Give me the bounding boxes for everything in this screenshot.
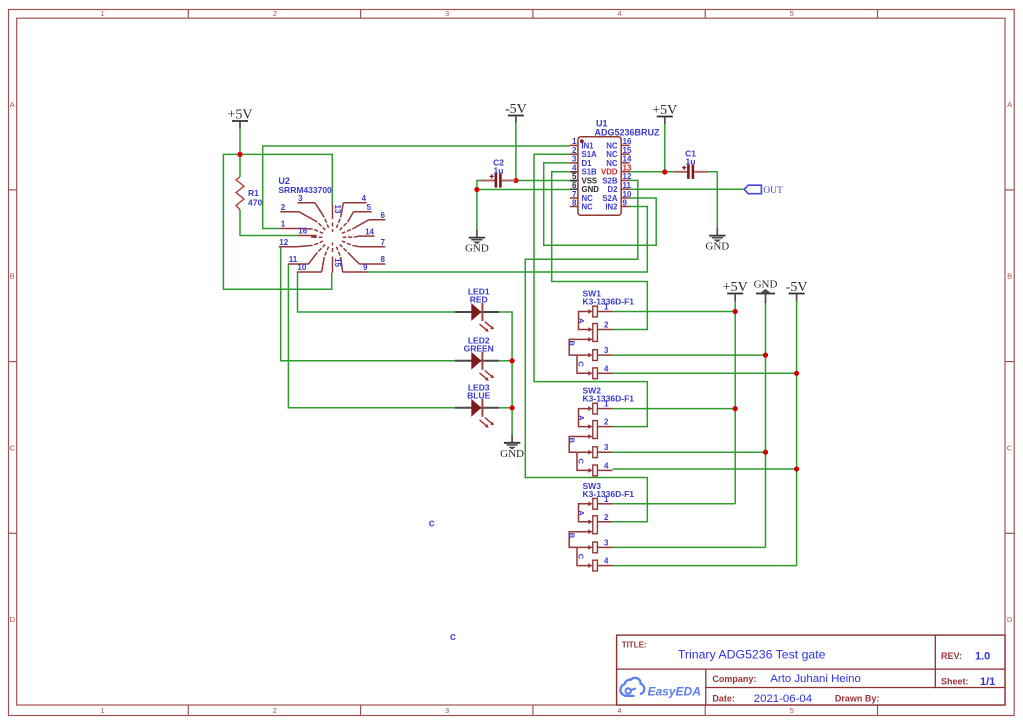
resistor R1 470	[236, 177, 262, 210]
svg-text:4: 4	[572, 164, 577, 173]
U1 pin 6 GND	[570, 181, 599, 194]
svg-text:D2: D2	[608, 185, 619, 194]
wire U2 pin10 to LED1 anode	[298, 272, 455, 312]
wire GND node down to ground	[476, 190, 478, 230]
ground symbol (up) at (765.5,293.5)	[754, 279, 778, 303]
svg-text:GND: GND	[582, 185, 600, 194]
wire LED2 cathode to GND rail	[499, 360, 512, 362]
wire SW3 pin3 to GND rail	[613, 546, 766, 548]
svg-text:A: A	[577, 415, 586, 421]
svg-text:B: B	[568, 341, 577, 347]
svg-text:GND: GND	[705, 241, 729, 253]
svg-text:1: 1	[101, 706, 105, 715]
svg-text:C: C	[576, 361, 585, 367]
svg-text:Sheet:: Sheet:	[941, 676, 969, 686]
wire -5V stem down to C2 right / U1 VSS	[515, 123, 517, 181]
U1 pin 10 S2A	[602, 190, 632, 203]
svg-text:3: 3	[604, 443, 609, 452]
U2 pin 6	[342, 211, 386, 233]
LED LED3 BLUE	[455, 382, 499, 427]
svg-text:2021-06-04: 2021-06-04	[754, 693, 812, 705]
svg-text:16: 16	[623, 137, 632, 146]
power symbol +5V at (664.8,116.5)	[652, 103, 677, 124]
svg-text:BLUE: BLUE	[467, 390, 490, 400]
svg-text:3: 3	[298, 194, 303, 203]
wire U1 pin9 IN2 to U2 pin9	[368, 207, 647, 273]
U1 pin 1 IN1	[570, 137, 594, 150]
U1 pin 13 VDD	[601, 164, 632, 177]
svg-text:11: 11	[623, 181, 632, 190]
wire +5V stem to junction	[239, 127, 241, 154]
junction dot LED3 cathode	[509, 405, 514, 410]
wire +5V rail vertical	[734, 301, 736, 504]
svg-text:REV:: REV:	[941, 651, 962, 661]
junction dot -5V/C2/VSS node	[513, 178, 518, 183]
rotary switch U2 SRRM433700	[278, 176, 385, 273]
svg-text:2: 2	[273, 706, 277, 715]
wire SW1 pin4 to -5V rail	[613, 372, 797, 374]
svg-text:c: c	[450, 631, 456, 643]
svg-text:TITLE:: TITLE:	[622, 640, 647, 649]
svg-text:B: B	[568, 533, 577, 539]
wire U1 pin13 VDD to +5V junction and C1	[630, 171, 674, 173]
svg-text:3: 3	[572, 155, 577, 164]
svg-text:4: 4	[617, 9, 621, 18]
svg-text:8: 8	[380, 255, 385, 264]
wire SW2 pin3 to GND rail	[613, 451, 766, 453]
U1 pin 9 IN2	[605, 198, 629, 211]
svg-text:1: 1	[281, 220, 286, 229]
svg-text:B: B	[1007, 272, 1012, 281]
junction dot +5V/R1 node	[237, 152, 242, 157]
U2 pin 7	[342, 238, 386, 247]
junction dot -5V rail SW2	[794, 466, 799, 471]
wire junction to R1 top	[239, 154, 241, 176]
wire R1 bottom to U2 pin16	[240, 210, 298, 236]
svg-text:Company:: Company:	[712, 674, 756, 684]
wire U1 pin12 S2B to SW3 pin2	[525, 180, 647, 521]
svg-text:A: A	[577, 318, 586, 324]
wire SW3 pin1 to +5V rail	[613, 503, 736, 505]
U2 pin 2	[280, 203, 325, 230]
svg-text:12: 12	[623, 172, 632, 181]
svg-text:2: 2	[572, 146, 577, 155]
wire +5V (U1) stem to junction	[664, 124, 666, 172]
svg-text:Date:: Date:	[712, 694, 735, 704]
svg-text:1: 1	[604, 495, 609, 504]
power symbol -5V at (515.9,115.5)	[505, 102, 527, 123]
svg-text:5: 5	[790, 706, 794, 715]
junction dot +5V rail SW1	[733, 309, 738, 314]
svg-text:2: 2	[281, 203, 286, 212]
svg-text:NC: NC	[606, 159, 618, 168]
capacitor C1 1u	[674, 149, 708, 179]
junction dot -5V rail SW1	[794, 371, 799, 376]
power symbol +5V at (240,121)	[227, 108, 252, 129]
svg-text:7: 7	[380, 238, 385, 247]
svg-text:5: 5	[367, 203, 372, 212]
wire LED3 cathode to GND rail	[499, 407, 512, 409]
svg-text:B: B	[10, 272, 15, 281]
svg-text:9: 9	[363, 263, 368, 272]
wire +5V junction left branch down to U2 pin15	[223, 154, 331, 289]
svg-text:12: 12	[279, 238, 288, 247]
U2 pin 1	[280, 220, 323, 234]
junction dot C2/GND node	[474, 187, 479, 192]
svg-text:6: 6	[380, 211, 385, 220]
svg-text:IN2: IN2	[605, 202, 618, 211]
wire +5V junction right branch to U2 pin13	[240, 154, 332, 204]
svg-text:C: C	[10, 443, 16, 452]
svg-text:3: 3	[604, 538, 609, 547]
svg-text:15: 15	[333, 258, 342, 267]
svg-text:9: 9	[623, 198, 628, 207]
svg-text:S2B: S2B	[602, 176, 618, 185]
svg-text:4: 4	[617, 706, 621, 715]
wire SW1 pin1 to +5V rail	[613, 311, 736, 313]
U1 pin 4 S1B	[570, 164, 597, 177]
svg-text:C: C	[1007, 443, 1013, 452]
wire U2 pin12 to LED2 anode	[281, 247, 455, 361]
svg-text:8: 8	[572, 198, 577, 207]
svg-text:Trinary ADG5236 Test gate: Trinary ADG5236 Test gate	[678, 648, 826, 662]
svg-text:D1: D1	[582, 159, 593, 168]
svg-text:A: A	[1007, 100, 1012, 109]
U2 pin 12	[279, 238, 323, 247]
svg-text:NC: NC	[582, 202, 594, 211]
svg-text:RED: RED	[470, 295, 488, 305]
svg-text:NC: NC	[606, 150, 618, 159]
junction dot +5V rail SW2	[733, 406, 738, 411]
U2 pin 10	[297, 247, 329, 273]
svg-text:OUT: OUT	[763, 186, 783, 196]
power symbol +5V at (735.2,293.5)	[723, 280, 748, 301]
svg-text:14: 14	[623, 155, 632, 164]
svg-text:3: 3	[604, 346, 609, 355]
svg-text:3: 3	[445, 9, 449, 18]
capacitor C2 1u	[481, 157, 516, 187]
svg-text:A: A	[577, 510, 586, 516]
wire GND rail vertical	[765, 301, 767, 547]
svg-text:IN1: IN1	[582, 141, 595, 150]
ground symbol at (512.1,434.5)	[500, 435, 524, 460]
U2 pin 5	[340, 203, 372, 230]
svg-text:C: C	[576, 554, 585, 560]
wire GND node to U1 pin6 GND	[477, 189, 570, 191]
U1 pin 5 VSS	[570, 172, 597, 185]
svg-text:R1: R1	[248, 188, 259, 198]
U1 pin 2 S1A	[570, 146, 597, 159]
U1 pin 14 NC	[606, 155, 632, 168]
svg-text:4: 4	[604, 364, 609, 373]
U2 pin 9	[336, 247, 368, 273]
svg-text:GND: GND	[754, 279, 778, 291]
LED LED2 GREEN	[455, 335, 499, 380]
title text	[622, 640, 996, 705]
EasyEDA logo	[620, 678, 700, 698]
svg-text:2: 2	[604, 418, 609, 427]
switch SW1 K3-1336D-F1	[568, 289, 635, 379]
power symbol -5V at (796.6,293.5)	[786, 280, 808, 301]
U2 pin 16	[298, 227, 323, 238]
wire SW1 pin3 to GND rail	[613, 354, 766, 356]
svg-text:6: 6	[572, 181, 577, 190]
svg-text:1.0: 1.0	[975, 650, 990, 662]
svg-text:NC: NC	[606, 141, 618, 150]
svg-text:Arto Juhani Heino: Arto Juhani Heino	[770, 673, 861, 685]
wire U1 pin4 S1B to SW1 pin2	[552, 172, 648, 330]
wire C2 right to U1 pin5 VSS	[516, 180, 570, 182]
svg-text:C: C	[576, 459, 585, 465]
U2 pin 4	[336, 194, 366, 228]
svg-text:GND: GND	[500, 448, 524, 460]
svg-text:B: B	[568, 438, 577, 444]
svg-text:3: 3	[445, 706, 449, 715]
svg-text:15: 15	[623, 146, 632, 155]
U2 pin 13	[333, 205, 342, 233]
ground symbol at (717.3,227.3)	[705, 227, 729, 252]
wire -5V rail vertical	[796, 301, 798, 566]
svg-text:A: A	[10, 100, 15, 109]
svg-text:470: 470	[248, 198, 262, 208]
svg-text:SRRM433700: SRRM433700	[278, 185, 332, 195]
svg-text:5: 5	[572, 172, 577, 181]
switch SW3 K3-1336D-F1	[568, 481, 635, 571]
svg-text:S1A: S1A	[582, 150, 598, 159]
svg-text:14: 14	[365, 227, 374, 236]
junction dot VDD/C1 node	[662, 169, 667, 174]
LED LED1 RED	[455, 287, 499, 332]
svg-text:D: D	[10, 615, 16, 624]
svg-text:EasyEDA: EasyEDA	[648, 684, 701, 698]
svg-text:4: 4	[362, 194, 367, 203]
U1 pin 8 NC	[570, 198, 593, 211]
U1 pin 12 S2B	[602, 172, 632, 185]
svg-text:10: 10	[297, 263, 306, 272]
wire C1 right down to ground	[708, 172, 717, 228]
wire U1 pin3 D1 to U1 pin10 S2A	[544, 163, 657, 245]
svg-text:1: 1	[101, 9, 105, 18]
svg-text:13: 13	[623, 164, 632, 173]
junction dot LED2 cathode	[509, 358, 514, 363]
U2 pin 14	[343, 227, 375, 237]
wire U2 pin1 to U1 pin1 IN1	[263, 146, 570, 229]
title block	[617, 635, 1005, 705]
U1 pin 7 NC	[570, 190, 593, 203]
U2 pin 11	[288, 244, 325, 264]
junction dot GND rail SW1	[763, 353, 768, 358]
svg-text:1: 1	[604, 400, 609, 409]
svg-text:D: D	[1007, 615, 1013, 624]
U2 pin 8	[340, 244, 386, 264]
U1 pin 11 D2	[608, 181, 632, 194]
U1 pin 15 NC	[606, 146, 632, 159]
wire U1 pin2 S1A to SW2 pin2	[534, 154, 647, 426]
svg-text:2: 2	[604, 513, 609, 522]
U1 pin 16 NC	[606, 137, 632, 150]
U1 pin 3 D1	[570, 155, 592, 168]
op-amp / analog switch U1 ADG5236BRUZ	[570, 119, 660, 216]
switch SW2 K3-1336D-F1	[568, 386, 635, 476]
svg-text:2: 2	[273, 9, 277, 18]
svg-text:5: 5	[790, 9, 794, 18]
svg-text:2: 2	[604, 321, 609, 330]
svg-text:VSS: VSS	[582, 176, 598, 185]
junction dot GND rail SW2	[763, 450, 768, 455]
svg-text:11: 11	[289, 255, 298, 264]
U2 pin 3	[298, 194, 329, 228]
svg-text:16: 16	[298, 227, 307, 236]
svg-text:GND: GND	[465, 243, 489, 255]
wire SW3 pin4 to -5V rail	[613, 565, 797, 567]
wire U2 pin11 to LED3 anode	[288, 264, 454, 408]
svg-text:VDD: VDD	[601, 168, 618, 177]
net flag OUT	[744, 185, 783, 196]
wire SW2 pin1 to +5V rail	[613, 408, 736, 410]
ground symbol at (476.9,229.3)	[465, 229, 489, 254]
svg-text:c: c	[429, 517, 435, 529]
wire SW2 pin4 to -5V rail	[613, 468, 797, 470]
svg-text:1/1: 1/1	[980, 676, 995, 688]
svg-text:GREEN: GREEN	[464, 343, 494, 353]
svg-text:Drawn By:: Drawn By:	[835, 694, 880, 704]
svg-text:S1B: S1B	[582, 168, 598, 177]
svg-text:4: 4	[604, 557, 609, 566]
U2 pin 15	[333, 243, 342, 273]
wire C2 left corner	[477, 181, 481, 190]
svg-text:1: 1	[572, 137, 577, 146]
svg-text:1: 1	[604, 303, 609, 312]
svg-text:4: 4	[604, 461, 609, 470]
svg-text:13: 13	[333, 205, 342, 214]
wire U1 pin11 D2 to OUT flag	[630, 188, 745, 190]
wire LED1 cathode to GND rail	[499, 312, 512, 435]
